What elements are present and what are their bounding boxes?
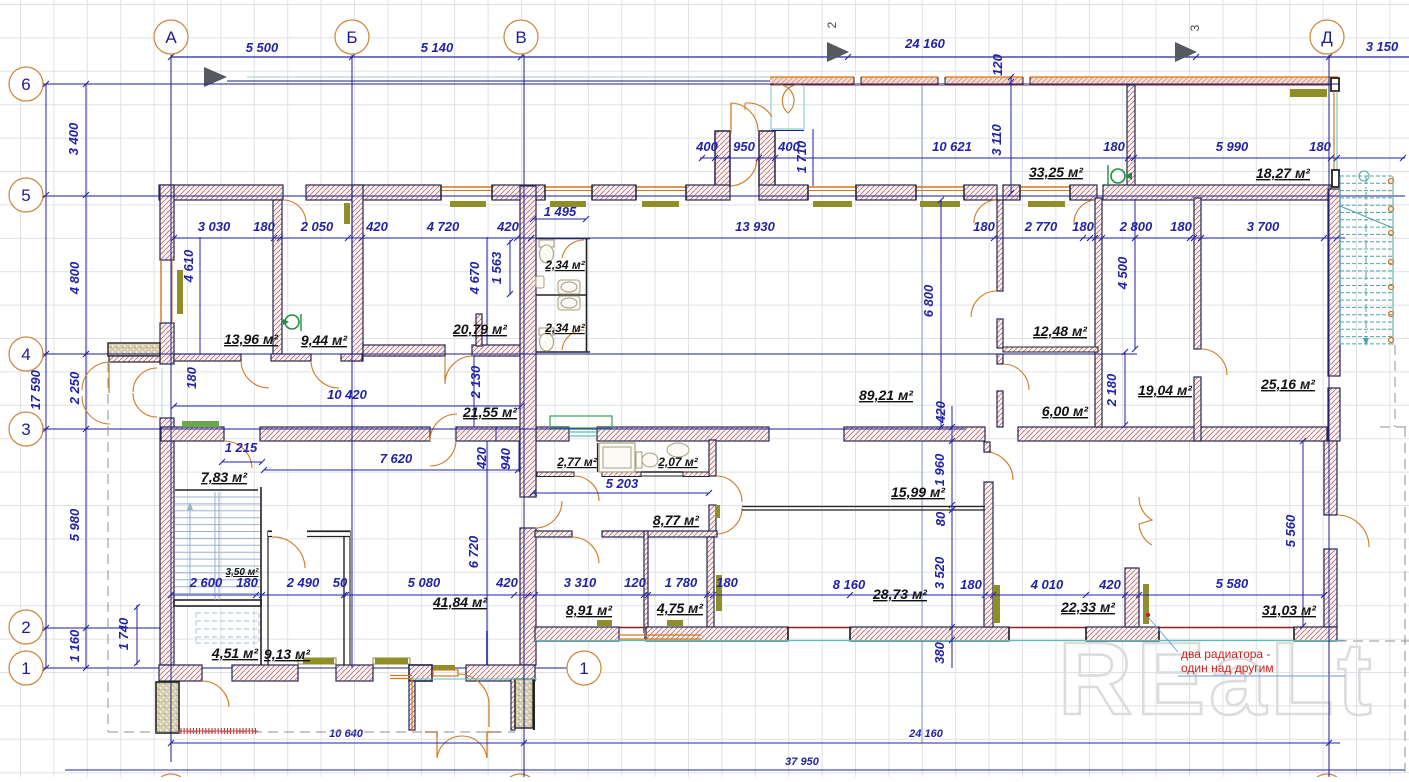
axis circle 1 mid (567, 651, 601, 685)
svg-text:13 930: 13 930 (735, 219, 776, 234)
svg-text:3: 3 (1188, 24, 1202, 31)
doors row4 wall (241, 361, 269, 388)
window sill 18,27 (1290, 89, 1327, 97)
svg-text:9,13 м²: 9,13 м² (264, 646, 310, 662)
svg-text:3 030: 3 030 (198, 219, 231, 234)
svg-text:5 560: 5 560 (1283, 514, 1298, 547)
section arrow at row 6 (204, 67, 227, 87)
windows row1 (298, 658, 336, 664)
stem wall 28,73 (984, 482, 993, 627)
bottom dim line y595 (171, 594, 1324, 596)
dim 10420 (174, 405, 521, 407)
svg-text:4 800: 4 800 (67, 261, 82, 295)
svg-text:3 310: 3 310 (564, 575, 597, 590)
svg-text:5 500: 5 500 (246, 40, 279, 55)
stair arrow (189, 505, 191, 594)
door arcs row3 (224, 441, 252, 468)
bottom partial circles (154, 774, 188, 782)
svg-text:2 250: 2 250 (67, 371, 82, 405)
svg-text:28,73 м²: 28,73 м² (872, 586, 927, 602)
svg-text:18,27 м²: 18,27 м² (1256, 165, 1310, 181)
NE door jamb (1332, 170, 1339, 187)
doors wall x708 (716, 476, 742, 502)
svg-text:4 500: 4 500 (1115, 256, 1130, 290)
porch side walls (409, 681, 415, 730)
green sill stair (182, 421, 219, 427)
row5 windows (orange lintels) (441, 186, 492, 188)
svg-text:19,04 м²: 19,04 м² (1138, 382, 1192, 398)
axis grid lines (43, 83, 1340, 85)
svg-text:180: 180 (960, 577, 982, 592)
svg-text:180: 180 (1309, 139, 1331, 154)
west wall top block (160, 185, 174, 260)
NE window vertical (1333, 91, 1335, 170)
svg-text:1 495: 1 495 (544, 204, 577, 219)
west window w/ radiator (160, 260, 162, 323)
svg-text:3,50 м²: 3,50 м² (226, 567, 260, 578)
svg-text:2: 2 (825, 21, 839, 28)
door arc top wall 13,96 (283, 200, 306, 223)
building NE corner (1331, 78, 1339, 91)
sinks between toilets (558, 280, 580, 310)
svg-text:2: 2 (21, 618, 30, 637)
svg-text:5: 5 (21, 186, 30, 205)
radiators 8,91 4,75 (597, 620, 612, 626)
top dimension line 5500/5140/24160/3150 (171, 56, 1409, 58)
svg-text:37 950: 37 950 (785, 756, 820, 768)
teal line south (535, 640, 1345, 642)
dim 1710 (812, 129, 814, 186)
row3 wall (161, 427, 224, 441)
axis circle 1 (9, 651, 43, 685)
red tick row porch (181, 728, 255, 734)
svg-text:7,83 м²: 7,83 м² (201, 469, 247, 485)
svg-text:420: 420 (474, 446, 489, 469)
dim line y158 (700, 157, 1405, 159)
canopy lines above row5 (227, 80, 770, 82)
radiator right of 2,07 (715, 505, 720, 518)
svg-text:6,00 м²: 6,00 м² (1042, 403, 1088, 419)
door below stair block (202, 681, 229, 707)
svg-text:2 770: 2 770 (1024, 219, 1058, 234)
svg-text:4 670: 4 670 (467, 261, 482, 295)
wall x1095 (12,48 / 19,04) (1095, 198, 1102, 427)
svg-text:21,55 м²: 21,55 м² (462, 404, 517, 420)
svg-text:1 960: 1 960 (932, 453, 947, 486)
jamb line x487 (486, 631, 488, 665)
svg-text:80: 80 (933, 511, 948, 526)
dim 3110/120 (1010, 77, 1012, 193)
stair dashed lower flight (196, 613, 259, 643)
axis circle A (154, 20, 188, 54)
svg-text:4 720: 4 720 (426, 219, 460, 234)
axis circle 4 (9, 337, 43, 371)
svg-text:2 490: 2 490 (286, 575, 320, 590)
svg-text:1 215: 1 215 (225, 440, 258, 455)
wall between 9,44 and 20,79 (352, 185, 363, 361)
partition shower/wc (597, 443, 599, 472)
partition 12,48/6,00 (1003, 347, 1098, 352)
door arc toilets south (574, 476, 599, 501)
dim 4500 (1134, 199, 1136, 349)
stair orange posts (1389, 179, 1394, 184)
svg-text:10 640: 10 640 (329, 728, 364, 740)
svg-text:5 990: 5 990 (1216, 139, 1249, 154)
svg-text:9,44 м²: 9,44 м² (301, 332, 347, 348)
svg-text:420: 420 (496, 219, 519, 234)
svg-text:31,03 м²: 31,03 м² (1262, 602, 1316, 618)
stair treads (175, 492, 260, 600)
bottom dims (171, 742, 1340, 744)
exterior stair treads (1340, 176, 1393, 344)
axis lines overlay (43, 83, 1340, 85)
svg-text:89,21 м²: 89,21 м² (859, 387, 913, 403)
teal line porch (412, 678, 537, 680)
south band right block (535, 627, 1337, 629)
svg-text:180: 180 (716, 575, 738, 590)
svg-text:6 720: 6 720 (466, 535, 481, 568)
9,13 room walls (268, 533, 272, 535)
svg-text:Б: Б (346, 28, 357, 47)
svg-text:1 710: 1 710 (794, 140, 809, 173)
porch walkway orange (390, 675, 412, 677)
svg-text:17 590: 17 590 (28, 369, 43, 410)
stair center dash-dot (1365, 176, 1367, 340)
dim 2130 (473, 356, 475, 427)
svg-text:1 563: 1 563 (489, 251, 504, 284)
svg-text:8 160: 8 160 (833, 577, 866, 592)
svg-text:420: 420 (365, 219, 388, 234)
8,77 south wall (535, 531, 572, 537)
B axis wall (520, 186, 536, 497)
south double door (436, 735, 438, 758)
double door 22,33/31,03 (1139, 497, 1152, 545)
svg-text:один над другим: один над другим (1181, 661, 1274, 675)
wall between 13,96 and 9,44 (273, 200, 282, 354)
svg-text:2,34 м²: 2,34 м² (544, 321, 586, 335)
axis circle 2 (9, 610, 43, 644)
svg-text:940: 940 (498, 447, 513, 469)
svg-text:3 110: 3 110 (989, 123, 1004, 155)
svg-text:180: 180 (184, 366, 199, 388)
green symbol 13,96 (285, 315, 299, 329)
svg-text:13,96 м²: 13,96 м² (224, 331, 278, 347)
svg-text:3: 3 (21, 420, 30, 439)
wall right of toilets (709, 440, 716, 476)
svg-text:25,16 м²: 25,16 м² (1260, 376, 1315, 392)
svg-text:5 980: 5 980 (67, 508, 82, 541)
dim 420/940 corridor (495, 427, 497, 441)
svg-text:5 203: 5 203 (606, 476, 639, 491)
dim 5580 (1139, 594, 1324, 596)
svg-text:420: 420 (495, 575, 518, 590)
green counter rect (550, 416, 612, 428)
radiator in 9,44 (344, 203, 350, 224)
svg-text:1 780: 1 780 (665, 575, 698, 590)
entrance door in 950 opening (730, 103, 732, 133)
svg-text:180: 180 (1170, 219, 1192, 234)
axis circle D (1310, 20, 1344, 54)
porch entrance (409, 665, 432, 681)
svg-text:два радиатора -: два радиатора - (1181, 647, 1270, 661)
wc mid (636, 452, 642, 468)
axis circle 6 (9, 67, 43, 101)
svg-text:4 610: 4 610 (181, 249, 196, 283)
svg-text:5 080: 5 080 (408, 575, 441, 590)
radiator 4,75 east (716, 575, 722, 611)
shower tray (599, 443, 635, 472)
dim 2180 (1124, 352, 1126, 425)
dim 1563 (509, 240, 511, 295)
svg-text:2 800: 2 800 (1119, 219, 1153, 234)
axis circle 5 (9, 178, 43, 212)
section arrow 2 (827, 42, 849, 62)
green symbol 33,25 (1111, 169, 1125, 183)
dim 4610 (199, 237, 201, 354)
svg-text:1: 1 (579, 659, 588, 678)
svg-text:4,51 м²: 4,51 м² (211, 645, 258, 661)
svg-text:4 010: 4 010 (1030, 577, 1064, 592)
small sink left top toilet (536, 276, 544, 288)
svg-text:120: 120 (990, 53, 1005, 75)
west wall mid + lower (160, 418, 174, 665)
main dim line y238 (174, 237, 1345, 239)
toilets 2,34 outline (536, 239, 590, 353)
svg-text:10 420: 10 420 (327, 387, 368, 402)
teal pass-through (569, 431, 597, 433)
wc top toilet (539, 240, 554, 263)
axis circle 3 (9, 412, 43, 446)
stem wall 22,33 (1125, 568, 1139, 627)
stair break diagonal (1340, 206, 1393, 228)
dim 4670+6720 (486, 237, 488, 345)
stair top circle (1359, 171, 1369, 181)
mid toilets south wall (537, 472, 574, 477)
west pier row4 (108, 343, 160, 356)
svg-text:2 050: 2 050 (300, 219, 334, 234)
svg-text:12,48 м²: 12,48 м² (1033, 323, 1087, 339)
axis circle V (504, 20, 538, 54)
row5 window sills (radiators) (450, 201, 486, 207)
svg-text:6: 6 (21, 75, 30, 94)
left block south wall row1 (159, 665, 202, 681)
corridor door leaf (530, 407, 532, 427)
svg-text:Д: Д (1321, 28, 1333, 47)
svg-text:41,84 м²: 41,84 м² (432, 594, 487, 610)
svg-text:5 140: 5 140 (421, 40, 454, 55)
corner step B wall (533, 492, 537, 496)
threshold door 8,91 (621, 633, 644, 639)
wall left of room 18,27 (1127, 85, 1135, 193)
vestibule door swing marks (745, 103, 772, 117)
svg-text:420: 420 (933, 400, 948, 423)
svg-text:2,07 м²: 2,07 м² (657, 455, 699, 469)
svg-text:8,77 м²: 8,77 м² (653, 512, 699, 528)
svg-text:2 600: 2 600 (189, 575, 223, 590)
dim 1495 (533, 218, 586, 220)
svg-text:33,25 м²: 33,25 м² (1029, 164, 1083, 180)
svg-text:180: 180 (253, 219, 275, 234)
north wing top wall (770, 77, 1338, 85)
svg-text:10 621: 10 621 (932, 139, 972, 154)
left dimension lines (45, 84, 47, 668)
row5 main wall (159, 185, 283, 200)
sink mid (667, 443, 689, 457)
stair block walls (174, 600, 261, 606)
svg-text:22,33 м²: 22,33 м² (1060, 599, 1115, 615)
svg-text:1 160: 1 160 (67, 629, 82, 662)
svg-text:А: А (165, 28, 177, 47)
row4 wall corridor (174, 354, 241, 361)
svg-text:1: 1 (21, 659, 30, 678)
axis circle B (335, 20, 369, 54)
dim 7620 (264, 469, 518, 471)
bottom-left pier (156, 682, 179, 733)
4,75 east wall (707, 537, 714, 638)
west opening doors (161, 368, 163, 417)
svg-text:5 580: 5 580 (1216, 576, 1249, 591)
dim 5203 (533, 492, 709, 494)
svg-text:15,99 м²: 15,99 м² (891, 484, 945, 500)
svg-text:180: 180 (1103, 139, 1125, 154)
svg-text:В: В (515, 28, 526, 47)
door B wall bottom (535, 501, 562, 528)
red dot radiator (1146, 613, 1150, 617)
svg-text:20,79 м²: 20,79 м² (452, 321, 507, 337)
svg-text:3 400: 3 400 (66, 122, 81, 155)
svg-text:120: 120 (624, 575, 646, 590)
section line 2 vertical (921, 84, 923, 743)
vestibule double door (774, 84, 794, 113)
svg-text:4: 4 (21, 345, 30, 364)
dim col x952 (951, 406, 953, 668)
svg-text:950: 950 (733, 139, 755, 154)
15,99 south thin wall (742, 506, 985, 508)
svg-text:4,75 м²: 4,75 м² (656, 600, 703, 616)
svg-text:3 150: 3 150 (1366, 39, 1399, 54)
svg-text:24 160: 24 160 (908, 728, 944, 740)
svg-text:50: 50 (333, 575, 348, 590)
stub in 20,79 (476, 314, 482, 346)
dashed property lines (108, 345, 1409, 772)
svg-text:2,34 м²: 2,34 м² (544, 258, 586, 272)
wc bottom toilet (539, 328, 554, 351)
toilet doors (562, 240, 584, 258)
svg-text:3 700: 3 700 (1247, 219, 1280, 234)
svg-text:24 160: 24 160 (904, 36, 946, 51)
vestibule piers (715, 131, 730, 187)
dim 6800 (940, 200, 942, 427)
svg-text:380: 380 (932, 641, 947, 663)
svg-text:420: 420 (1098, 577, 1121, 592)
svg-text:180: 180 (1072, 219, 1094, 234)
svg-text:7 620: 7 620 (380, 451, 413, 466)
svg-text:180: 180 (973, 219, 995, 234)
doors in row5 wall right (974, 200, 997, 223)
svg-text:6 800: 6 800 (921, 284, 936, 317)
wall x1194 (19,04 / 25,16) (1194, 198, 1201, 349)
radiator note leader (1148, 617, 1345, 676)
dim 1215 (222, 461, 262, 463)
svg-text:8,91 м²: 8,91 м² (566, 602, 612, 618)
svg-text:1 740: 1 740 (116, 617, 131, 650)
svg-text:2 180: 2 180 (1104, 373, 1119, 407)
vestibule cyan outline (771, 85, 804, 129)
section arrow 3 (1175, 42, 1197, 62)
dim 5560 (1302, 441, 1304, 626)
wall x997 (89,21 east) (997, 200, 1003, 291)
svg-text:2 130: 2 130 (468, 365, 483, 399)
svg-text:400: 400 (695, 139, 718, 154)
svg-text:2,77 м²: 2,77 м² (556, 455, 598, 469)
wall 8,91/4,75 divider (644, 531, 648, 638)
east outer wall (18,27/25,16) (1328, 189, 1340, 376)
stair side rails (1339, 176, 1341, 345)
svg-text:3 520: 3 520 (932, 556, 947, 589)
